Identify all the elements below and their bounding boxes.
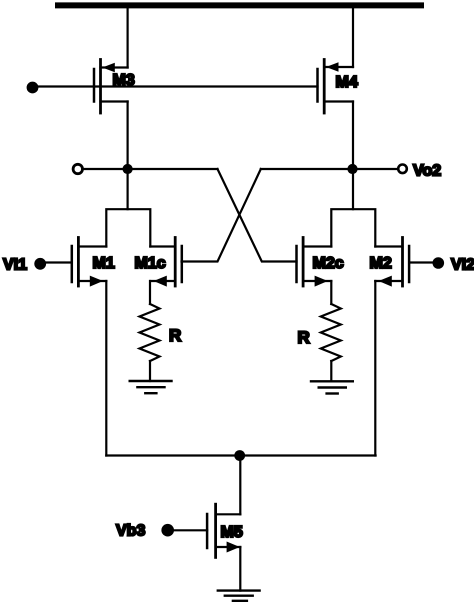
wire M2c source to resistor xyxy=(330,281,332,304)
transistor M5 xyxy=(207,504,243,557)
svg-text:VI1: VI1 xyxy=(3,257,27,274)
node Vo2 terminal xyxy=(398,165,407,174)
wire M3 drain to left pair drains xyxy=(126,102,128,210)
wire VDD to M4 source xyxy=(352,8,354,67)
VDD rail xyxy=(58,2,421,8)
wire M5 source to ground xyxy=(239,547,241,591)
wire VI1 to M1 gate xyxy=(44,261,72,263)
svg-text:M3: M3 xyxy=(113,72,135,89)
svg-text:Vb3: Vb3 xyxy=(116,523,145,540)
svg-text:M2c: M2c xyxy=(313,255,344,272)
ground right xyxy=(311,381,353,393)
wire tail rail xyxy=(106,454,375,456)
transistor M1c xyxy=(135,238,182,287)
svg-text:R: R xyxy=(298,328,310,347)
ground left xyxy=(130,381,172,393)
svg-text:M5: M5 xyxy=(221,524,243,541)
wire resistor to ground right xyxy=(330,361,332,381)
transistor M2c xyxy=(297,238,344,287)
wire M1 source down xyxy=(105,281,107,456)
wire resistor to ground left xyxy=(149,361,151,381)
svg-text:VI2: VI2 xyxy=(451,257,474,274)
wire cross-couple right to M1c gate xyxy=(182,169,261,262)
svg-text:M1c: M1c xyxy=(135,255,166,272)
transistor M1 xyxy=(72,238,115,287)
wire VDD to M3 source xyxy=(126,8,128,68)
wire M4 drain to right pair drains xyxy=(352,102,354,210)
svg-text:M2: M2 xyxy=(370,255,392,272)
wire Vb3 to M5 gate xyxy=(172,529,207,531)
ground M5 xyxy=(218,591,260,601)
node right output junction xyxy=(347,164,357,174)
resistor R left xyxy=(140,304,160,361)
wire cross-couple left to M2c gate xyxy=(218,169,297,262)
wire tail to M5 drain xyxy=(239,456,241,515)
node Vb3 terminal dot xyxy=(161,524,174,537)
svg-text:M1: M1 xyxy=(93,255,115,272)
wire M1c source to resistor xyxy=(149,281,151,304)
node Vo1 terminal xyxy=(73,164,82,173)
transistor M2 xyxy=(370,238,410,287)
node left output junction xyxy=(123,164,133,174)
transistor M3 xyxy=(94,60,135,114)
wire bias gate line M3-M4 xyxy=(36,85,318,87)
svg-text:R: R xyxy=(169,326,181,345)
wire VI2 to M2 gate xyxy=(409,261,434,263)
node bias input dot xyxy=(27,82,39,94)
wire Vo1 row xyxy=(83,168,218,170)
node tail junction xyxy=(234,450,245,461)
svg-text:M4: M4 xyxy=(336,74,358,91)
resistor R right xyxy=(321,304,341,361)
wire M2 source down xyxy=(374,281,376,456)
wire left pair drain bridge xyxy=(106,209,150,246)
wire right pair drain bridge xyxy=(331,209,375,246)
node VI1 terminal dot xyxy=(34,258,46,270)
node VI2 terminal dot xyxy=(433,257,445,269)
svg-text:Vo2: Vo2 xyxy=(413,163,441,180)
transistor M4 xyxy=(318,60,358,114)
wire Vo2 row xyxy=(261,168,398,170)
